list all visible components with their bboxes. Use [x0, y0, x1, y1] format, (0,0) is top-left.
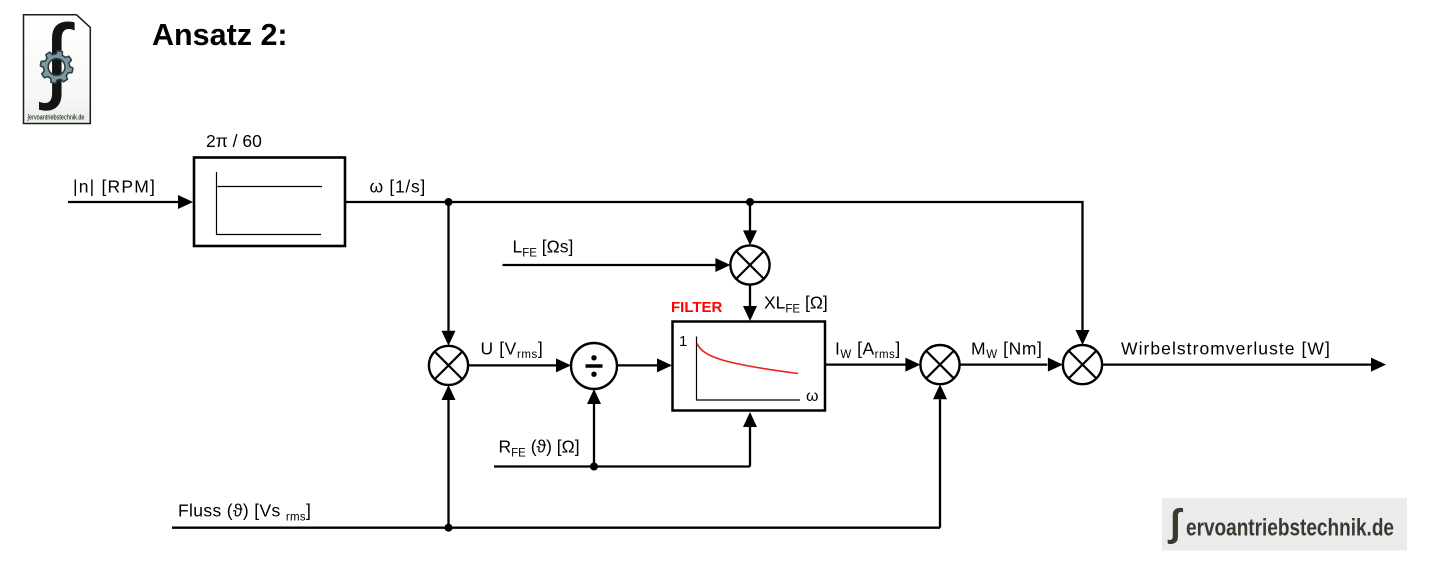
filter graph axes [697, 337, 801, 401]
multiplier M2 [429, 346, 468, 385]
arrowhead into M1 left [715, 258, 730, 272]
wire Fluss up to M2 bottom [447, 400, 449, 528]
arrowhead into M4 left [1048, 358, 1063, 372]
svg-text:RFE (ϑ) [Ω]: RFE (ϑ) [Ω] [499, 437, 580, 460]
arrowhead into M3 left [905, 358, 920, 372]
wire M2 to divider [468, 364, 556, 366]
svg-text:LFE [Ωs]: LFE [Ωs] [513, 237, 574, 260]
svg-text:Ansatz 2:: Ansatz 2: [152, 18, 288, 52]
svg-text:∫ervoantriebstechnik.de: ∫ervoantriebstechnik.de [27, 113, 85, 122]
arrowhead into divider left [556, 358, 571, 372]
svg-text:2π / 60: 2π / 60 [206, 131, 262, 151]
arrowhead into block 2pi/60 [178, 195, 193, 209]
arrowhead into M4 top [1076, 330, 1090, 345]
svg-text:Wirbelstromverluste [W]: Wirbelstromverluste [W] [1121, 339, 1331, 359]
svg-text:|n| [RPM]: |n| [RPM] [73, 177, 156, 197]
svg-text:IW [Arms]: IW [Arms] [835, 339, 901, 362]
arrowhead into divider bottom [587, 389, 601, 404]
logo gear [40, 51, 73, 84]
arrowhead into filter left [657, 358, 672, 372]
svg-text:XLFE [Ω]: XLFE [Ω] [764, 293, 828, 316]
arrowhead into filter top [743, 306, 757, 321]
wire R_FE up to filter bottom [749, 427, 751, 467]
arrowhead output [1371, 358, 1386, 372]
wire M3 to M4 [960, 363, 1048, 365]
svg-text:ω: ω [806, 388, 819, 405]
divider block [571, 343, 617, 389]
wire omega down to multiplier M2 [447, 202, 449, 331]
wire divider to filter [617, 364, 658, 366]
wire M1 to filter top [749, 285, 751, 307]
wire R_FE horizontal [494, 465, 750, 467]
block 2pi/60 graph axes [217, 172, 323, 235]
wire Fluss horizontal [172, 527, 940, 529]
node junction R_FE [590, 463, 598, 471]
wire input n [68, 201, 179, 203]
multiplier M1 [730, 245, 769, 284]
multiplier M4 [1063, 345, 1102, 384]
logo document outline (top-left) [24, 15, 91, 124]
multiplier M3 [920, 345, 959, 384]
node junction omega-2 [746, 198, 754, 206]
svg-text:U [Vrms]: U [Vrms] [481, 339, 544, 362]
wire omega down to multiplier M1 [749, 202, 751, 231]
block 2pi/60 [194, 158, 345, 247]
svg-text:ω [1/s]: ω [1/s] [370, 177, 427, 197]
block filter [673, 322, 826, 411]
arrowhead into M1 top [743, 230, 757, 245]
wire R_FE up to divider [593, 404, 595, 467]
arrowhead into M2 top [442, 331, 456, 346]
svg-text:Fluss (ϑ) [Vs rms]: Fluss (ϑ) [Vs rms] [178, 501, 311, 524]
svg-text:ervoantriebstechnik.de: ervoantriebstechnik.de [1186, 515, 1394, 542]
svg-text:1: 1 [679, 333, 687, 350]
svg-text:MW [Nm]: MW [Nm] [971, 339, 1042, 362]
arrowhead into M2 bottom [442, 385, 456, 400]
svg-text:FILTER: FILTER [671, 299, 723, 316]
wire Fluss up to M3 bottom [939, 399, 941, 528]
wire filter to M3 [826, 363, 906, 365]
arrowhead into M3 bottom [933, 384, 947, 399]
wire output [1102, 363, 1371, 365]
wire omega main (to top-right corner and down) [346, 202, 1083, 331]
filter graph red curve [697, 344, 798, 374]
node junction omega-1 [445, 198, 453, 206]
arrowhead into filter bottom [743, 412, 757, 427]
logo servoantriebstechnik.de (bottom-right) [1162, 498, 1407, 551]
wire L_FE [503, 264, 717, 266]
node junction Fluss [445, 524, 453, 532]
